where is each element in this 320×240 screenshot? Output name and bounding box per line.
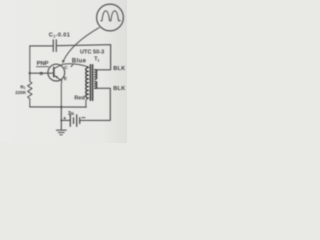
svg-text:3v.: 3v. [68,111,75,117]
svg-text:UTC 50-3: UTC 50-3 [80,49,104,55]
svg-text:Red: Red [74,95,85,101]
svg-text:Blue: Blue [72,58,87,64]
svg-text:BLK: BLK [113,86,125,92]
svg-text:220K: 220K [15,90,27,95]
svg-text:BLK: BLK [113,66,125,72]
svg-text:B: B [40,71,44,77]
svg-text:C: C [64,65,68,71]
svg-text:PNP: PNP [37,61,49,67]
svg-text:C1-0.01: C1-0.01 [49,33,70,39]
